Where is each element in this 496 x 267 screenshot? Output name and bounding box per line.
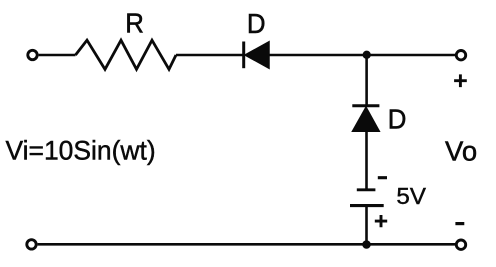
bottom rail wire <box>38 243 456 246</box>
node junction bottom <box>362 240 371 249</box>
svg-text:D: D <box>247 8 266 39</box>
wire junction down to diode D2 <box>365 55 368 106</box>
diode D1 series, triangle <box>245 42 269 68</box>
svg-text:R: R <box>125 8 144 39</box>
plus sign output <box>454 74 467 87</box>
ground-side terminal bottom-left <box>27 240 36 249</box>
svg-text:5V: 5V <box>396 184 426 209</box>
output terminal top-right <box>456 51 465 60</box>
svg-text:Vo: Vo <box>445 135 477 166</box>
svg-text:Vi=10Sin(wt): Vi=10Sin(wt) <box>6 135 156 165</box>
wire diode to output terminal <box>269 54 455 57</box>
wire battery to bottom rail <box>365 206 368 245</box>
svg-text:D: D <box>388 104 407 135</box>
wire input to resistor <box>39 54 76 57</box>
wire resistor to diode <box>176 54 244 57</box>
diode D2 shunt, cathode bar <box>352 104 379 107</box>
node junction top <box>363 51 371 59</box>
output terminal bottom-right <box>456 240 465 249</box>
minus sign output <box>455 222 464 225</box>
resistor R1 <box>76 40 177 69</box>
battery bottom plate (positive, long) <box>350 204 384 207</box>
battery minus sign <box>378 176 387 179</box>
battery plus sign <box>375 215 387 227</box>
input terminal top-left <box>28 50 37 59</box>
diode D1 series, cathode bar <box>242 42 245 69</box>
wire diode D2 to battery <box>365 131 368 190</box>
diode D2 shunt, triangle <box>353 107 380 131</box>
battery top plate (negative, short) <box>357 188 376 191</box>
